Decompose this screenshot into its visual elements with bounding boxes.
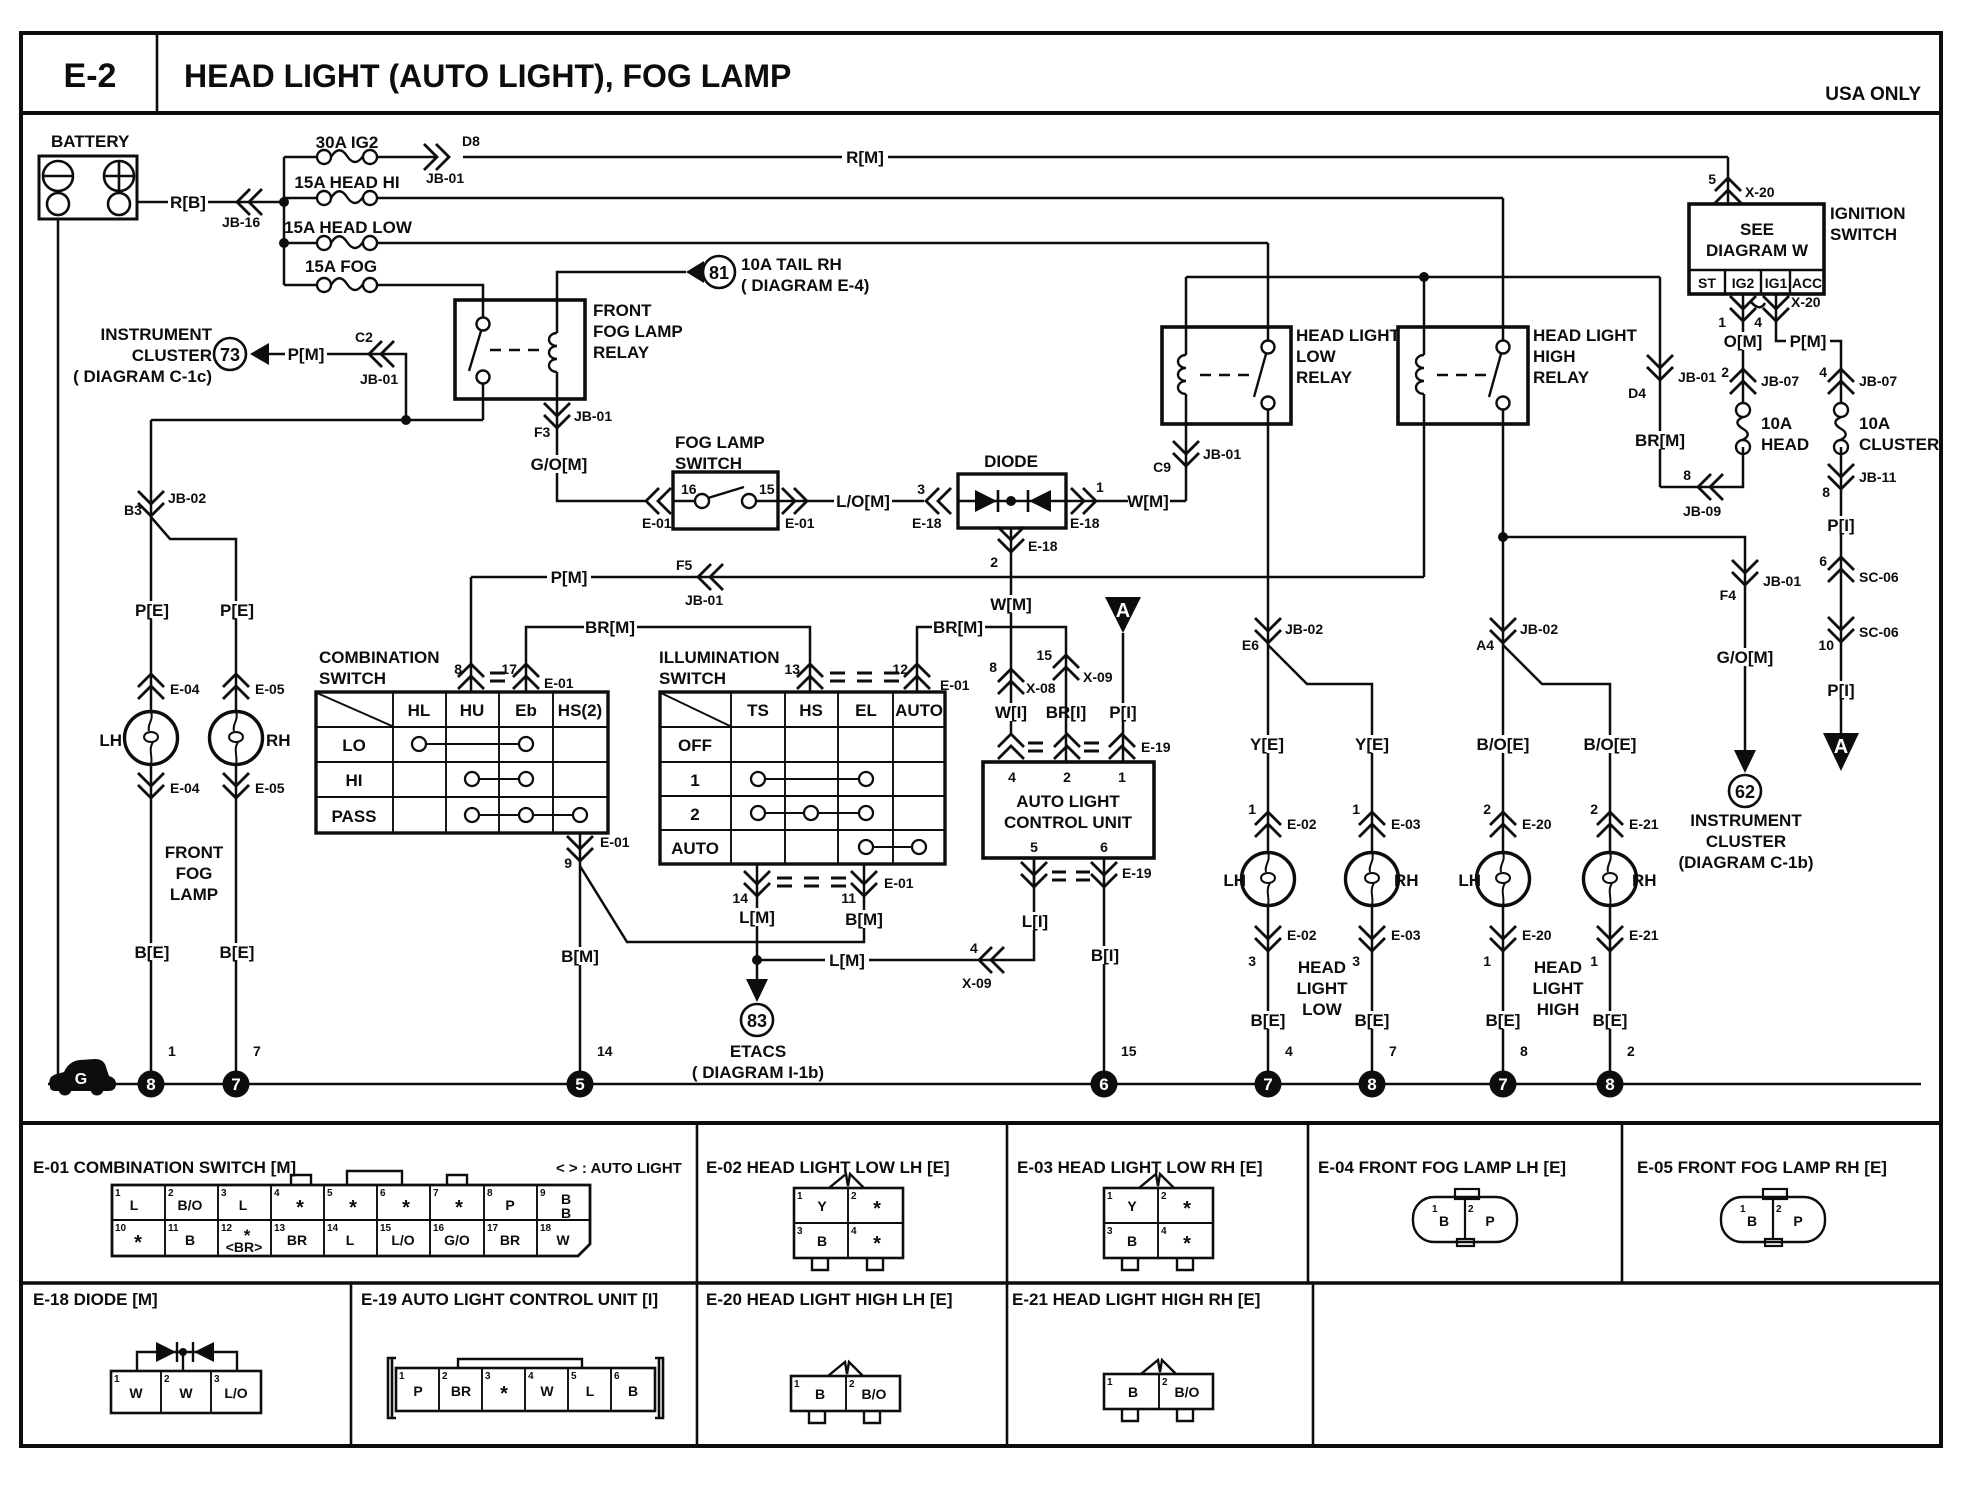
svg-text:B/O: B/O: [862, 1386, 887, 1402]
svg-text:RH: RH: [1632, 871, 1657, 890]
svg-text:L/O: L/O: [224, 1385, 247, 1401]
svg-text:P[M]: P[M]: [551, 568, 588, 587]
svg-text:P: P: [413, 1383, 422, 1399]
svg-text:HEAD: HEAD: [1298, 958, 1346, 977]
wire F4 branch to instrument cluster 62: [1503, 537, 1745, 750]
svg-text:*: *: [1183, 1198, 1191, 1220]
svg-text:5: 5: [327, 1188, 333, 1199]
svg-text:E-20: E-20: [1522, 816, 1552, 832]
wire label Y[E] LH: [1247, 735, 1287, 754]
svg-text:B[E]: B[E]: [1355, 1011, 1390, 1030]
wire high relay switch output: [1502, 424, 1505, 645]
svg-text:3: 3: [917, 481, 925, 497]
svg-text:W: W: [129, 1385, 143, 1401]
wire label L[M]: [735, 908, 779, 927]
svg-text:3: 3: [1107, 1226, 1113, 1237]
svg-text:E-19: E-19: [1141, 739, 1171, 755]
svg-text:1: 1: [115, 1188, 121, 1199]
svg-text:9: 9: [564, 855, 572, 871]
ignition switch box: [1689, 204, 1824, 294]
svg-text:W: W: [540, 1383, 554, 1399]
svg-text:P[E]: P[E]: [220, 601, 254, 620]
connector E-01 pins 8 17: [458, 664, 484, 689]
wire diode output down: [1010, 528, 1013, 733]
connector X-09 pin 4: [979, 947, 1004, 973]
node F4 branch: [1498, 532, 1508, 542]
arrow to 10A TAIL RH: [686, 261, 704, 283]
wire label BR[I]: [1044, 703, 1089, 722]
svg-text:D8: D8: [462, 133, 480, 149]
svg-text:LO: LO: [342, 736, 366, 755]
svg-text:F4: F4: [1720, 587, 1737, 603]
svg-text:E-05: E-05: [255, 780, 285, 796]
svg-text:7: 7: [1389, 1043, 1397, 1059]
wire L[M] from illumination pin 14: [756, 864, 759, 979]
svg-text:P: P: [1485, 1213, 1494, 1229]
svg-text:2: 2: [164, 1374, 170, 1385]
wire high beam LH drop: [1502, 645, 1505, 852]
wire label P[E] left: [133, 601, 170, 620]
connector A4 JB-02: [1490, 618, 1516, 643]
svg-text:SC-06: SC-06: [1859, 569, 1899, 585]
connector E-18 pin 2: [998, 527, 1024, 552]
svg-text:8: 8: [1367, 1075, 1376, 1094]
svg-text:17: 17: [487, 1223, 499, 1234]
connector E-01 pins 13 12: [797, 664, 823, 689]
svg-text:1: 1: [168, 1043, 176, 1059]
node L[M] junction: [752, 955, 762, 965]
svg-text:6: 6: [1100, 839, 1108, 855]
wire label W[I]: [993, 703, 1029, 722]
svg-text:1: 1: [114, 1374, 120, 1385]
svg-text:6: 6: [614, 1371, 620, 1382]
svg-text:( DIAGRAM E-4): ( DIAGRAM E-4): [741, 276, 869, 295]
connector E-03 pin 3: [1371, 906, 1374, 1084]
svg-text:L: L: [586, 1383, 595, 1399]
svg-text:E-03 HEAD LIGHT LOW RH [E]: E-03 HEAD LIGHT LOW RH [E]: [1017, 1158, 1263, 1177]
svg-text:4: 4: [851, 1226, 857, 1237]
destination triangle A middle: [1105, 597, 1141, 633]
svg-text:8: 8: [146, 1075, 155, 1094]
svg-text:8: 8: [1822, 484, 1830, 500]
svg-text:3: 3: [1248, 953, 1256, 969]
svg-text:FRONT: FRONT: [165, 843, 224, 862]
lamp head light low RH: [1346, 853, 1399, 906]
svg-text:1: 1: [1483, 953, 1491, 969]
svg-text:R[M]: R[M]: [846, 148, 884, 167]
svg-text:4: 4: [1754, 314, 1762, 330]
svg-text:E-01: E-01: [544, 675, 574, 691]
svg-text:CLUSTER: CLUSTER: [132, 346, 212, 365]
svg-text:CLUSTER: CLUSTER: [1706, 832, 1786, 851]
bus node 7 pin 7: [223, 1071, 250, 1098]
svg-text:A: A: [1834, 736, 1848, 758]
bus node 5 pin 14: [567, 1071, 594, 1098]
wire label B[E] low LH: [1249, 1011, 1287, 1030]
wire label B[E] fog RH: [218, 943, 256, 962]
svg-text:E-18 DIODE [M]: E-18 DIODE [M]: [33, 1290, 158, 1309]
wire low relay coil to C9: [1185, 424, 1188, 501]
svg-text:B/O[E]: B/O[E]: [1584, 735, 1637, 754]
svg-text:10A: 10A: [1761, 414, 1792, 433]
svg-text:E-04: E-04: [170, 780, 200, 796]
wire label W[M] to C9: [1163, 500, 1186, 503]
svg-text:4: 4: [970, 940, 978, 956]
wire JB-09 link to 10A HEAD: [1660, 447, 1743, 487]
svg-text:X-20: X-20: [1745, 184, 1775, 200]
svg-text:16: 16: [433, 1223, 445, 1234]
svg-text:E-05 FRONT FOG LAMP RH [E]: E-05 FRONT FOG LAMP RH [E]: [1637, 1158, 1887, 1177]
svg-text:RELAY: RELAY: [1533, 368, 1590, 387]
svg-text:B: B: [185, 1232, 195, 1248]
svg-text:SWITCH: SWITCH: [659, 669, 726, 688]
svg-text:L[I]: L[I]: [1022, 912, 1048, 931]
svg-text:4: 4: [1285, 1043, 1293, 1059]
svg-text:JB-01: JB-01: [426, 170, 464, 186]
svg-text:JB-01: JB-01: [574, 408, 612, 424]
relay HEAD LIGHT HIGH: [1398, 327, 1528, 424]
svg-text:L/O: L/O: [391, 1232, 414, 1248]
wire label B[I]: [1087, 946, 1123, 965]
wire label P[I] upper: [1822, 516, 1860, 535]
svg-text:11: 11: [168, 1223, 179, 1234]
wire low beam RH branch: [1268, 645, 1372, 852]
svg-text:8: 8: [1520, 1043, 1528, 1059]
svg-text:B/O: B/O: [178, 1197, 203, 1213]
svg-text:15A HEAD HI: 15A HEAD HI: [294, 173, 399, 192]
svg-text:BR: BR: [451, 1383, 471, 1399]
svg-text:1: 1: [1248, 801, 1256, 817]
svg-text:18: 18: [540, 1223, 552, 1234]
svg-text:IG2: IG2: [1732, 275, 1755, 291]
circled 81: [703, 256, 735, 288]
svg-text:RH: RH: [1394, 871, 1419, 890]
svg-text:HI: HI: [346, 771, 363, 790]
svg-text:8: 8: [487, 1188, 493, 1199]
connector drawing E-03: [1104, 1174, 1213, 1270]
svg-text:E-05: E-05: [255, 681, 285, 697]
svg-text:BR[M]: BR[M]: [585, 618, 635, 637]
svg-text:RELAY: RELAY: [1296, 368, 1353, 387]
svg-text:P: P: [1793, 1213, 1802, 1229]
svg-text:INSTRUMENT: INSTRUMENT: [101, 325, 213, 344]
connector drawing E-02: [794, 1174, 903, 1270]
svg-text:E-04 FRONT FOG LAMP LH [E]: E-04 FRONT FOG LAMP LH [E]: [1318, 1158, 1566, 1177]
svg-text:Y[E]: Y[E]: [1355, 735, 1389, 754]
svg-text:JB-02: JB-02: [1520, 621, 1558, 637]
svg-text:HEAD LIGHT: HEAD LIGHT: [1296, 326, 1401, 345]
svg-text:LAMP: LAMP: [170, 885, 218, 904]
svg-text:B/O: B/O: [1175, 1384, 1200, 1400]
svg-text:<BR>: <BR>: [226, 1239, 263, 1255]
wire BR[I] into unit: [1065, 692, 1068, 762]
svg-text:3: 3: [797, 1226, 803, 1237]
lamp front fog RH: [210, 712, 263, 765]
svg-text:1: 1: [1718, 314, 1726, 330]
connector F3 JB-01: [557, 399, 645, 501]
connector X-20 pin 5: [1715, 178, 1741, 203]
connector D4 JB-01: [1647, 355, 1673, 380]
svg-text:*: *: [455, 1197, 463, 1219]
svg-text:E-18: E-18: [1070, 515, 1100, 531]
svg-text:B/O[E]: B/O[E]: [1477, 735, 1530, 754]
svg-text:B[I]: B[I]: [1091, 946, 1119, 965]
svg-text:BR[M]: BR[M]: [1635, 431, 1685, 450]
connector drawing E-05: [1721, 1189, 1825, 1246]
connector X-08 pin 8: [998, 669, 1024, 694]
svg-text:X-09: X-09: [962, 975, 992, 991]
connector F4 JB-01: [1732, 560, 1758, 585]
connector drawing E-20: [791, 1362, 900, 1423]
connector E-03 pin 1: [1359, 812, 1385, 837]
wire P[I] into unit: [1122, 633, 1125, 762]
connector drawing E-18: [111, 1342, 261, 1413]
bus node 8 pin 7: [1359, 1071, 1386, 1098]
connector D8 JB-01: [463, 156, 1728, 159]
svg-text:G: G: [75, 1071, 87, 1088]
svg-text:Y: Y: [817, 1198, 827, 1214]
svg-text:G/O: G/O: [444, 1232, 470, 1248]
svg-text:1: 1: [399, 1371, 405, 1382]
lamp head light high LH: [1477, 853, 1530, 906]
svg-text:14: 14: [597, 1043, 613, 1059]
svg-text:E-21: E-21: [1629, 816, 1659, 832]
svg-text:E-03: E-03: [1391, 816, 1421, 832]
fuse 10A CLUSTER: [1834, 403, 1848, 454]
svg-text:O[M]: O[M]: [1724, 332, 1763, 351]
svg-text:HEAD LIGHT: HEAD LIGHT: [1533, 326, 1638, 345]
svg-text:G/O[M]: G/O[M]: [1717, 648, 1774, 667]
wire label G/O[M] right: [1714, 648, 1776, 667]
svg-text:SWITCH: SWITCH: [319, 669, 386, 688]
svg-text:JB-09: JB-09: [1683, 503, 1721, 519]
svg-text:4: 4: [1161, 1226, 1167, 1237]
svg-text:3: 3: [221, 1188, 227, 1199]
wire label Y[E] RH: [1352, 735, 1392, 754]
svg-text:10: 10: [115, 1223, 127, 1234]
wire low relay switch output: [1267, 424, 1270, 645]
svg-text:E-20: E-20: [1522, 927, 1552, 943]
svg-text:B[M]: B[M]: [845, 910, 883, 929]
svg-text:1: 1: [797, 1191, 803, 1202]
lamp head light high RH: [1584, 853, 1637, 906]
wire label P[E] right: [218, 601, 255, 620]
svg-text:CONTROL UNIT: CONTROL UNIT: [1004, 813, 1133, 832]
svg-text:E-20 HEAD LIGHT HIGH LH [E]: E-20 HEAD LIGHT HIGH LH [E]: [706, 1290, 953, 1309]
svg-text:*: *: [873, 1198, 881, 1220]
arrow into 62: [1734, 750, 1756, 773]
svg-text:*: *: [296, 1197, 304, 1219]
svg-text:W: W: [179, 1385, 193, 1401]
connector F5 JB-01: [698, 564, 723, 590]
node junction C2/fog relay return: [401, 415, 411, 425]
connector E-02 pin 3: [1267, 906, 1270, 1084]
svg-text:*: *: [500, 1383, 508, 1405]
connector E-05 lower: [235, 765, 238, 1084]
svg-text:P[I]: P[I]: [1109, 703, 1136, 722]
svg-text:7: 7: [1263, 1075, 1272, 1094]
svg-text:11: 11: [841, 890, 856, 906]
connector E-01 pin 9: [579, 833, 582, 866]
svg-text:2: 2: [1590, 801, 1598, 817]
svg-text:E-01: E-01: [785, 515, 815, 531]
svg-text:E-01: E-01: [884, 875, 914, 891]
svg-text:COMBINATION: COMBINATION: [319, 648, 440, 667]
wire P[M] from IG1: [1776, 294, 1841, 403]
wire high relay coil return to P[M] line: [1423, 424, 1426, 577]
svg-text:JB-01: JB-01: [1678, 369, 1716, 385]
destination triangle A right: [1823, 733, 1859, 771]
svg-text:BR: BR: [500, 1232, 520, 1248]
wire B[M] comb to bus: [579, 866, 582, 1084]
svg-text:LH: LH: [1223, 871, 1246, 890]
svg-text:FOG: FOG: [176, 864, 213, 883]
svg-text:E6: E6: [1242, 637, 1259, 653]
svg-text:E-02: E-02: [1287, 927, 1317, 943]
svg-text:HEAD LIGHT (AUTO LIGHT), FOG L: HEAD LIGHT (AUTO LIGHT), FOG LAMP: [184, 58, 791, 94]
svg-text:B: B: [1128, 1384, 1138, 1400]
svg-text:LOW: LOW: [1302, 1000, 1343, 1019]
svg-text:7: 7: [1498, 1075, 1507, 1094]
svg-text:7: 7: [231, 1075, 240, 1094]
svg-text:B[E]: B[E]: [1486, 1011, 1521, 1030]
svg-text:L/O[M]: L/O[M]: [836, 492, 890, 511]
svg-text:E-02: E-02: [1287, 816, 1317, 832]
connector X-09 pin 15: [1053, 655, 1079, 680]
svg-text:HU: HU: [460, 701, 485, 720]
arrow into instrument cluster: [250, 343, 269, 365]
svg-text:AUTO LIGHT: AUTO LIGHT: [1016, 792, 1120, 811]
wire L[M] to X-09: [757, 858, 1034, 960]
svg-text:B: B: [561, 1205, 571, 1221]
svg-text:15: 15: [759, 481, 775, 497]
svg-text:3: 3: [1352, 953, 1360, 969]
svg-text:1: 1: [1590, 953, 1598, 969]
svg-text:5: 5: [575, 1075, 584, 1094]
svg-text:8: 8: [454, 661, 462, 677]
svg-text:JB-11: JB-11: [1859, 469, 1897, 485]
connector E-20 pin 2: [1490, 812, 1516, 837]
svg-text:Y[E]: Y[E]: [1250, 735, 1284, 754]
svg-text:14: 14: [327, 1223, 339, 1234]
connector E-02 pin 1: [1255, 812, 1281, 837]
svg-text:IGNITION: IGNITION: [1830, 204, 1906, 223]
svg-text:B: B: [1747, 1213, 1757, 1229]
svg-text:P[M]: P[M]: [1790, 332, 1827, 351]
svg-text:E-02 HEAD LIGHT LOW LH [E]: E-02 HEAD LIGHT LOW LH [E]: [706, 1158, 950, 1177]
svg-text:8: 8: [1683, 467, 1691, 483]
svg-text:2: 2: [690, 805, 699, 824]
svg-text:ACC: ACC: [1792, 275, 1822, 291]
svg-text:1: 1: [1432, 1204, 1438, 1215]
svg-text:ST: ST: [1698, 275, 1716, 291]
ground car icon G: [49, 1059, 116, 1096]
node high relay coil feed: [1419, 272, 1429, 282]
svg-text:E-21 HEAD LIGHT HIGH RH [E]: E-21 HEAD LIGHT HIGH RH [E]: [1012, 1290, 1260, 1309]
svg-text:3: 3: [485, 1371, 491, 1382]
bus node 7 pin 4: [1255, 1071, 1282, 1098]
svg-text:5: 5: [571, 1371, 577, 1382]
svg-text:JB-07: JB-07: [1761, 373, 1799, 389]
connector drawing E-19: [388, 1358, 663, 1418]
ground bus: [48, 1083, 1921, 1086]
svg-text:ETACS: ETACS: [730, 1042, 786, 1061]
svg-text:83: 83: [747, 1011, 767, 1031]
svg-text:13: 13: [274, 1223, 286, 1234]
svg-text:B: B: [1439, 1213, 1449, 1229]
svg-text:12: 12: [892, 661, 908, 677]
connector drawing E-01: [112, 1171, 590, 1256]
svg-text:E-01: E-01: [600, 834, 630, 850]
connector JB-11 pin 8: [1828, 464, 1854, 489]
circled 73: [214, 338, 246, 370]
svg-text:2: 2: [1468, 1204, 1474, 1215]
switch table ILLUMINATION: [660, 692, 945, 864]
svg-text:1: 1: [1740, 1204, 1746, 1215]
svg-text:4: 4: [274, 1188, 280, 1199]
svg-text:73: 73: [220, 345, 240, 365]
svg-text:F3: F3: [534, 424, 551, 440]
svg-text:JB-02: JB-02: [168, 490, 206, 506]
svg-text:15A FOG: 15A FOG: [305, 257, 377, 276]
connector E-18 pin 3: [926, 488, 951, 514]
wire label BR[M] right: [1634, 431, 1687, 450]
svg-text:2: 2: [442, 1371, 448, 1382]
wire head low fuse drop to low relay: [1267, 243, 1270, 327]
svg-text:HEAD: HEAD: [1534, 958, 1582, 977]
svg-text:5: 5: [1708, 171, 1716, 187]
svg-text:A4: A4: [1476, 637, 1494, 653]
wire O[M] from IG2: [1742, 294, 1745, 403]
svg-text:USA ONLY: USA ONLY: [1825, 84, 1921, 105]
svg-text:B: B: [815, 1386, 825, 1402]
svg-text:10A: 10A: [1859, 414, 1890, 433]
svg-text:1: 1: [1352, 801, 1360, 817]
svg-text:HL: HL: [408, 701, 431, 720]
svg-text:B[E]: B[E]: [1251, 1011, 1286, 1030]
wire label L[I]: [1018, 912, 1052, 931]
wire B[M] link from illumination pin 11: [580, 864, 864, 942]
svg-text:< > : AUTO LIGHT: < > : AUTO LIGHT: [556, 1160, 682, 1177]
svg-text:HS: HS: [799, 701, 823, 720]
wire branch to RH fog lamp: [151, 517, 236, 711]
wire P[M] line F5: [471, 576, 1424, 579]
svg-text:JB-16: JB-16: [222, 214, 260, 230]
unit AUTO LIGHT CONTROL UNIT: [983, 762, 1154, 858]
svg-text:ILLUMINATION: ILLUMINATION: [659, 648, 780, 667]
svg-text:TS: TS: [747, 701, 769, 720]
svg-text:E-2: E-2: [64, 57, 117, 95]
svg-text:10: 10: [1818, 637, 1834, 653]
wire high beam RH branch: [1503, 645, 1610, 852]
svg-text:W[I]: W[I]: [995, 703, 1027, 722]
connector E-04 upper: [138, 674, 164, 699]
wire battery ground rail: [57, 219, 60, 1084]
svg-text:W[M]: W[M]: [1127, 492, 1169, 511]
svg-text:JB-01: JB-01: [360, 371, 398, 387]
svg-text:3: 3: [214, 1374, 220, 1385]
svg-text:B[M]: B[M]: [561, 947, 599, 966]
svg-text:LIGHT: LIGHT: [1297, 979, 1349, 998]
wire label R[B]: [168, 192, 208, 212]
relay FRONT FOG LAMP: [455, 300, 585, 399]
svg-text:E-21: E-21: [1629, 927, 1659, 943]
svg-text:*: *: [402, 1197, 410, 1219]
svg-text:FOG LAMP: FOG LAMP: [675, 433, 765, 452]
svg-text:4: 4: [1008, 769, 1016, 785]
wire label B[M] left: [558, 947, 603, 966]
wire fog relay coil top to tail feed: [557, 272, 686, 300]
